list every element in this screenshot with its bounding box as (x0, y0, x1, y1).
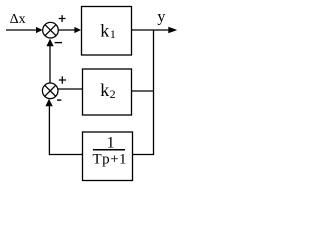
summing junction 2 (circle with X) (42, 83, 58, 99)
svg-text:2: 2 (110, 87, 116, 101)
plus sign at junction 1 (59, 15, 66, 22)
arrowhead into junction 2 bottom (45, 99, 52, 107)
arrowhead into block k1 (74, 27, 81, 33)
arrowhead into junction 1 bottom (46, 39, 53, 47)
wire: k2 output to summing junction 2 (58, 88, 83, 90)
arrowhead into summing junction 1 left (36, 27, 43, 33)
wire: tap to input of block Tp+1 (133, 154, 155, 156)
svg-text:1: 1 (107, 134, 115, 151)
wire: junction 1 to block k1 (58, 29, 75, 31)
fraction bar (93, 149, 125, 151)
svg-text:1: 1 (110, 27, 116, 41)
minus sign at junction 2 (57, 99, 61, 101)
minus sign at junction 1 (55, 42, 62, 44)
wire: junction 2 output up to junction 1 (49, 46, 51, 83)
wire: up into junction 2 bottom (48, 106, 50, 156)
wire: input line into summing junction 1 (6, 29, 37, 31)
svg-text:Tp+1: Tp+1 (93, 151, 127, 167)
wire: Tp+1 output to the left (49, 154, 83, 156)
wire: k1 output to y arrow (132, 29, 170, 31)
summing junction 1 (circle with X) (43, 22, 59, 38)
block k2 (83, 69, 132, 115)
output arrowhead y (168, 27, 177, 34)
svg-text:Δx: Δx (10, 12, 26, 27)
block k1 (82, 7, 132, 56)
wire: feedback tap vertical from output (153, 30, 155, 155)
wire: tap to input of block k2 (132, 90, 154, 92)
svg-text:y: y (157, 9, 165, 26)
plus sign at junction 2 (59, 76, 66, 83)
svg-text:k: k (100, 80, 109, 100)
svg-text:k: k (100, 20, 109, 40)
block 1/(Tp+1) (83, 132, 133, 181)
